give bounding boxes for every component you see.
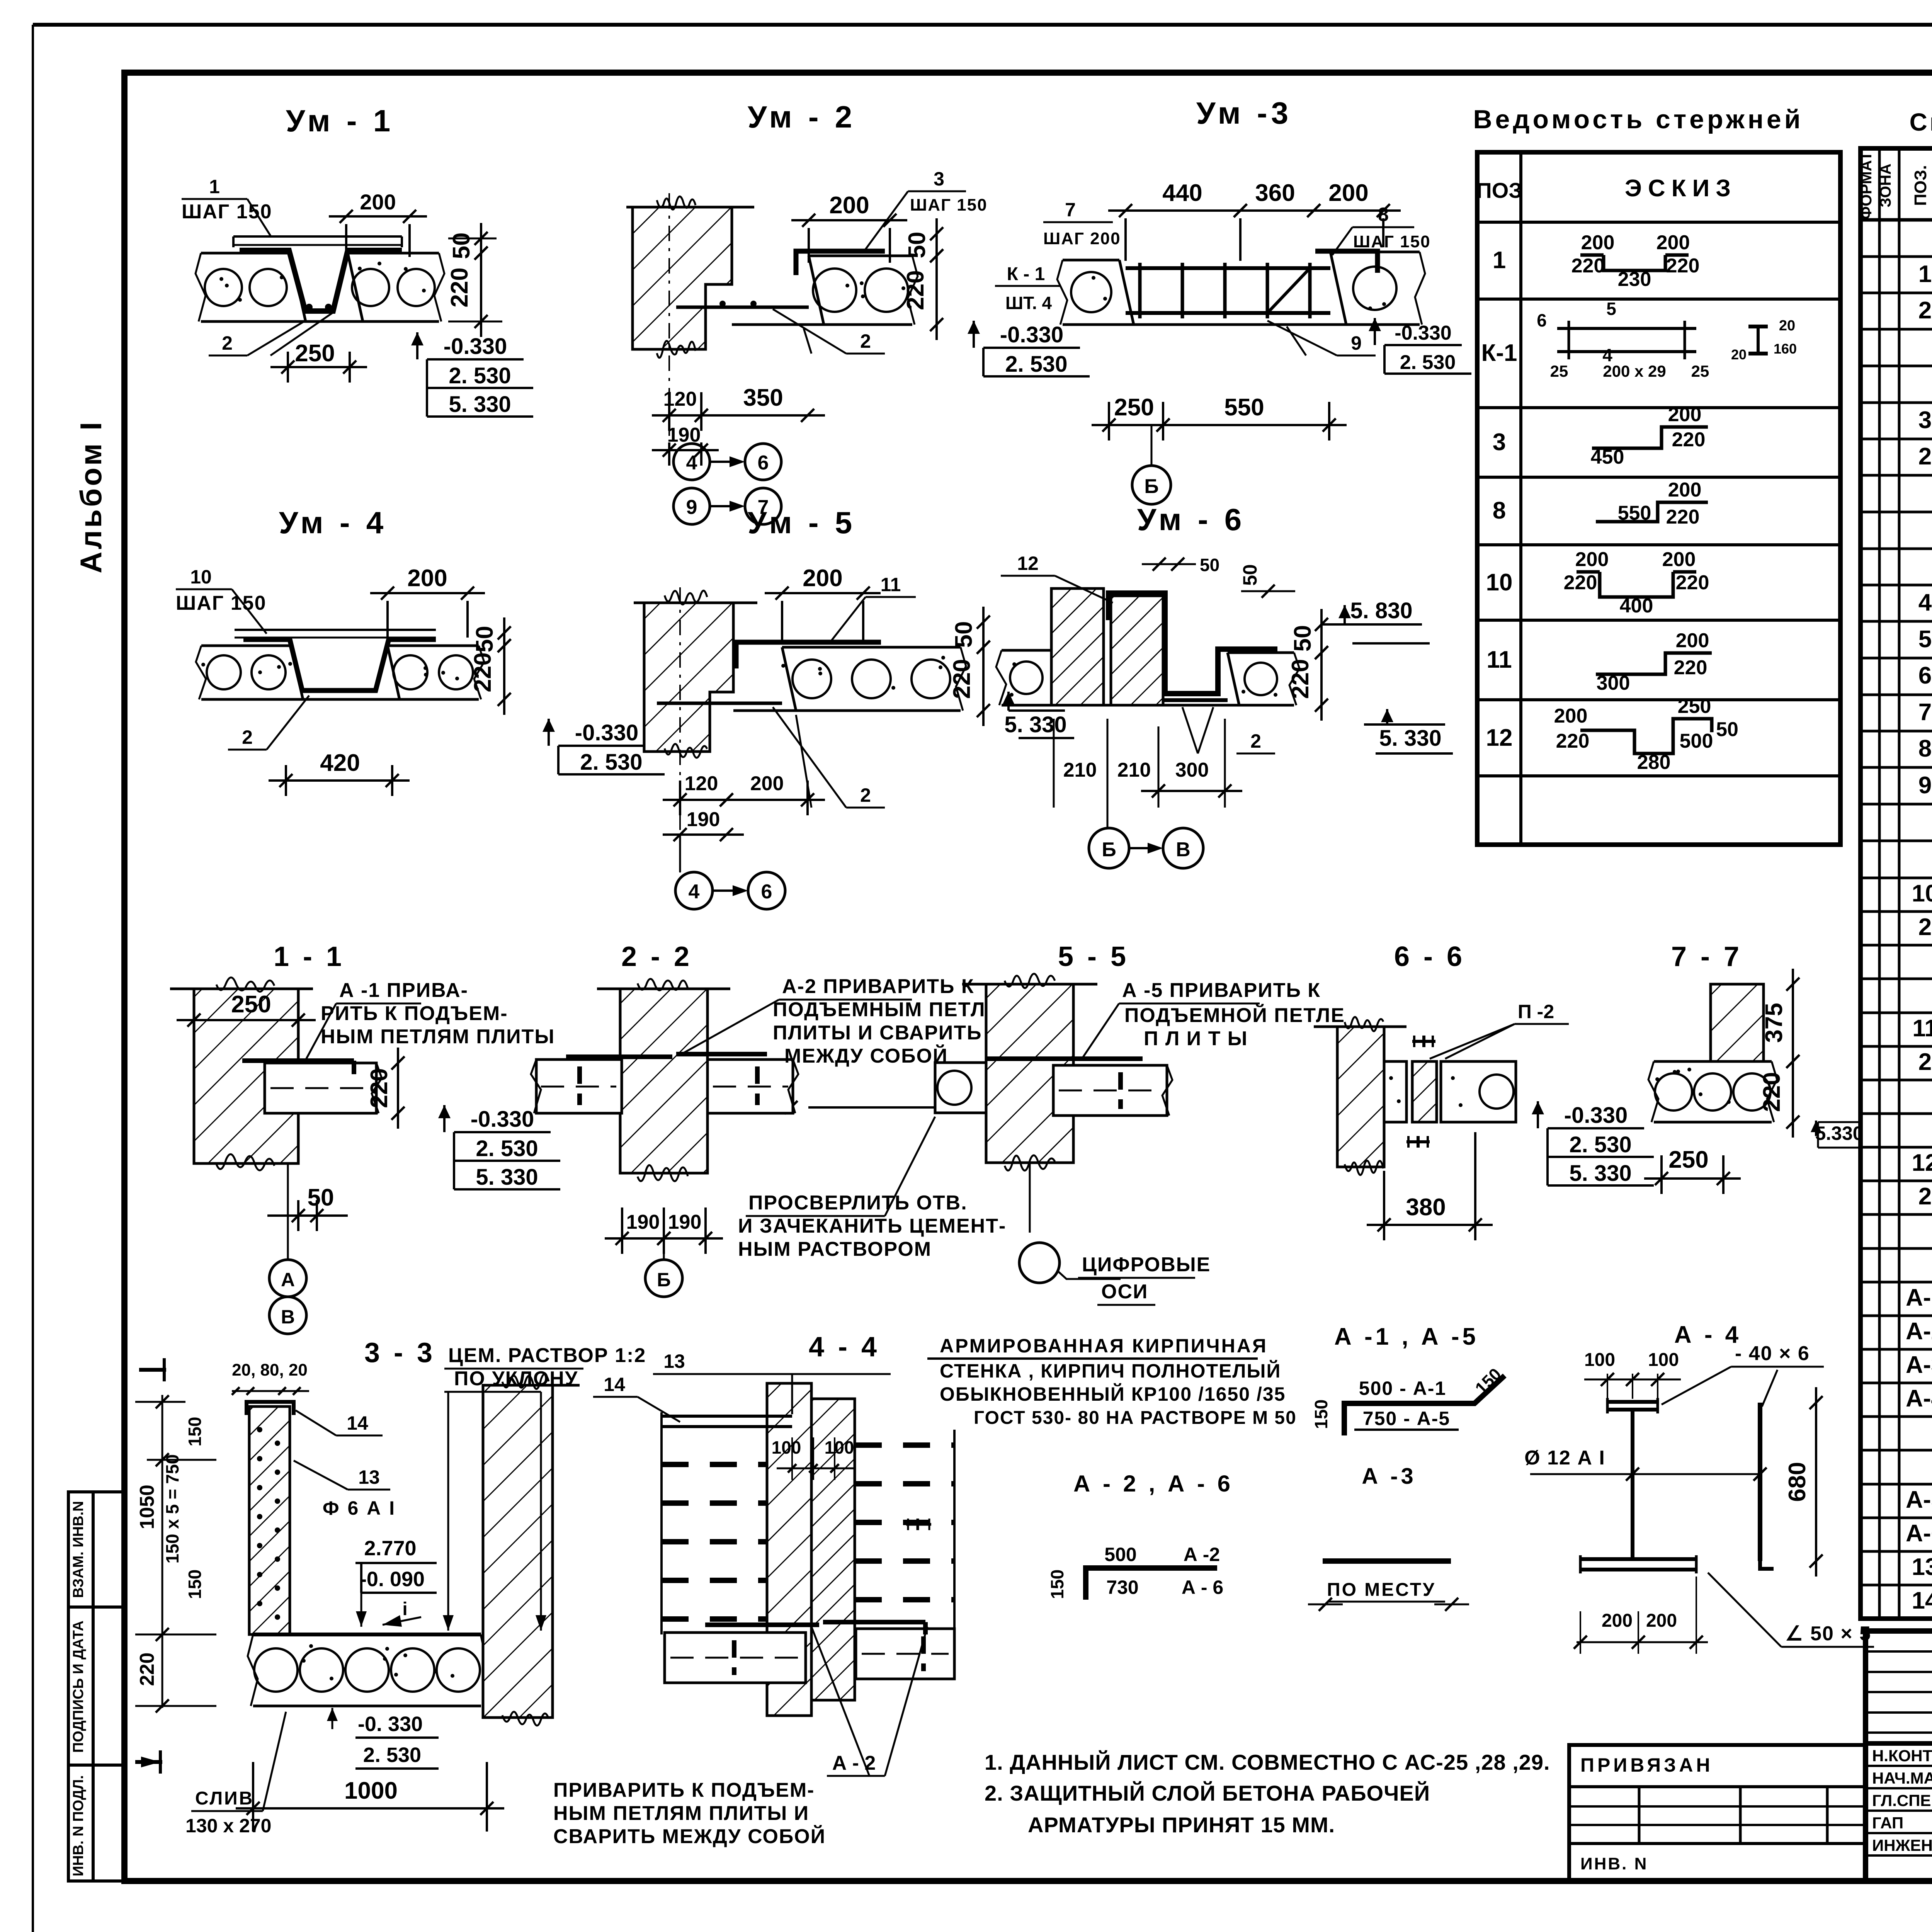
УМ-2 axis line	[668, 193, 670, 456]
svg-text:150: 150	[185, 1417, 205, 1447]
svg-text:2. 530: 2. 530	[363, 1743, 421, 1767]
svg-text:- 40 × 6: - 40 × 6	[1735, 1342, 1810, 1365]
УМ-3 rebar poz8	[1315, 251, 1378, 273]
svg-text:8: 8	[1918, 735, 1932, 762]
svg-text:190: 190	[626, 1211, 660, 1233]
svg-text:190: 190	[668, 1211, 702, 1233]
svg-text:500: 500	[1104, 1544, 1136, 1565]
svg-text:1: 1	[209, 176, 220, 197]
svg-text:420: 420	[320, 750, 360, 776]
svg-text:Ум -3: Ум -3	[1196, 96, 1292, 130]
section 2-2 left slab	[536, 1060, 622, 1113]
svg-text:ШТ. 4: ШТ. 4	[1005, 293, 1052, 313]
svg-text:200: 200	[1646, 1611, 1677, 1631]
section 5-5 axis circle	[1029, 1163, 1031, 1233]
svg-text:400: 400	[1620, 595, 1653, 617]
УМ-2 dims 120 350 190	[652, 414, 719, 417]
УМ-5 level 5.330	[1007, 692, 1010, 711]
title block upper-left small rows	[1866, 1650, 1932, 1653]
svg-text:500: 500	[1680, 730, 1713, 752]
svg-text:20: 20	[1779, 318, 1795, 334]
svg-text:200: 200	[829, 192, 869, 219]
svg-text:НЫМ РАСТВОРОМ: НЫМ РАСТВОРОМ	[738, 1238, 932, 1260]
УМ-1 bottom line	[201, 320, 439, 323]
УМ-5 wall	[644, 603, 733, 752]
svg-text:-0.330: -0.330	[1395, 322, 1451, 344]
section 6-6 channel marks	[1412, 1040, 1435, 1043]
УМ-2 level marks	[973, 321, 975, 348]
3-3 thin wall	[249, 1406, 290, 1634]
svg-text:4: 4	[1918, 589, 1932, 616]
svg-text:50: 50	[904, 232, 930, 259]
title block main horizontal line	[1866, 1741, 1932, 1746]
section 1-1 dim 250	[177, 1019, 316, 1021]
svg-text:25: 25	[1550, 362, 1568, 380]
УМ-1 dim 250	[270, 366, 367, 368]
svg-text:3: 3	[1918, 407, 1932, 434]
section 2-2 dims 190 190	[605, 1237, 681, 1240]
svg-text:50: 50	[471, 626, 498, 653]
svg-text:200: 200	[1328, 180, 1368, 206]
УМ-3 cage K-1	[1126, 266, 1330, 270]
svg-text:250: 250	[1114, 394, 1154, 421]
svg-text:150 х 5 = 750: 150 х 5 = 750	[162, 1454, 182, 1564]
svg-text:Б: Б	[1102, 838, 1116, 861]
svg-text:220: 220	[1672, 429, 1706, 451]
svg-text:10: 10	[1486, 569, 1513, 596]
УМ-6 left slab	[1002, 649, 1051, 652]
svg-text:380: 380	[1406, 1194, 1446, 1221]
УМ-4 left slab	[201, 645, 291, 647]
svg-text:100: 100	[772, 1437, 801, 1458]
svg-text:220: 220	[1666, 255, 1700, 277]
svg-text:4: 4	[686, 452, 697, 474]
svg-text:2: 2	[1918, 1049, 1932, 1075]
section 7-7 slab	[1654, 1060, 1772, 1063]
svg-text:220: 220	[1287, 659, 1314, 699]
outer page border	[33, 23, 1932, 27]
svg-text:ИНЖЕНЕР: ИНЖЕНЕР	[1872, 1836, 1932, 1854]
section 6-6 block concrete left	[1384, 1061, 1406, 1122]
svg-text:6: 6	[1537, 310, 1547, 330]
sketch row 8: step 550/200/220	[1596, 502, 1708, 522]
svg-text:РИТЬ К ПОДЪЕМ-: РИТЬ К ПОДЪЕМ-	[321, 1002, 508, 1025]
svg-text:И ЗАЧЕКАНИТЬ ЦЕМЕНТ-: И ЗАЧЕКАНИТЬ ЦЕМЕНТ-	[738, 1215, 1006, 1237]
svg-text:А: А	[281, 1269, 295, 1291]
УМ-6 rebar poz12	[1109, 593, 1277, 694]
УМ-6 right slab	[1228, 651, 1294, 654]
УМ-6 wall block 2	[1111, 596, 1163, 705]
svg-text:6 - 6: 6 - 6	[1394, 941, 1465, 972]
svg-text:6: 6	[761, 881, 772, 903]
svg-text:200: 200	[1668, 403, 1702, 426]
section 6-6 wall	[1337, 1027, 1384, 1167]
svg-text:ЭСКИЗ: ЭСКИЗ	[1625, 175, 1737, 202]
УМ-6 dim 50 top	[1153, 558, 1166, 571]
svg-text:5. 830: 5. 830	[1350, 598, 1412, 623]
svg-text:2: 2	[1918, 443, 1932, 470]
svg-text:ПОДПИСЬ И ДАТА: ПОДПИСЬ И ДАТА	[70, 1621, 87, 1753]
svg-text:220: 220	[1556, 730, 1590, 752]
svg-text:220: 220	[366, 1068, 393, 1108]
section 5-5 left slab	[935, 1063, 986, 1113]
svg-text:220: 220	[136, 1653, 158, 1686]
svg-text:ПО МЕСТУ: ПО МЕСТУ	[1327, 1580, 1436, 1600]
svg-text:220: 220	[446, 267, 473, 307]
svg-text:450: 450	[1591, 446, 1624, 468]
svg-text:230: 230	[1618, 268, 1651, 291]
УМ-6 level 5.330 right	[1386, 709, 1388, 724]
svg-text:СВАРИТЬ МЕЖДУ СОБОЙ: СВАРИТЬ МЕЖДУ СОБОЙ	[553, 1825, 826, 1848]
svg-text:2: 2	[1918, 1183, 1932, 1210]
УМ-3 left slab	[1063, 259, 1119, 262]
svg-text:9: 9	[686, 496, 697, 519]
svg-text:20, 80, 20: 20, 80, 20	[232, 1361, 308, 1379]
svg-text:А -3: А -3	[1362, 1464, 1417, 1489]
svg-text:-0.330: -0.330	[444, 334, 507, 359]
svg-text:5. 330: 5. 330	[1569, 1161, 1631, 1186]
svg-text:150: 150	[1311, 1400, 1331, 1429]
УМ-5 slab	[782, 646, 961, 649]
svg-text:360: 360	[1255, 180, 1295, 206]
УМ-4 level marks	[548, 719, 550, 746]
svg-text:А-6: А-6	[1906, 1520, 1932, 1547]
svg-text:ПОЗ.: ПОЗ.	[1911, 165, 1930, 206]
privyazan box	[1569, 1745, 1866, 1881]
svg-text:1000: 1000	[344, 1777, 398, 1804]
УМ-1 right slab	[348, 252, 439, 255]
svg-text:1: 1	[1493, 247, 1506, 274]
УМ-5 rebar poz11	[736, 642, 881, 668]
svg-text:150: 150	[1047, 1570, 1067, 1599]
svg-text:А -1 , А -5: А -1 , А -5	[1334, 1323, 1479, 1350]
A-4 web	[1631, 1410, 1634, 1559]
svg-text:ПОДЪЕМНЫМ ПЕТЛЯМ: ПОДЪЕМНЫМ ПЕТЛЯМ	[773, 998, 1018, 1021]
A-1 A-5 anchor bar drawing	[1344, 1376, 1505, 1435]
svg-text:2: 2	[860, 330, 871, 352]
svg-text:11: 11	[1486, 646, 1512, 673]
svg-text:ПРИВАРИТЬ К ПОДЪЕМ-: ПРИВАРИТЬ К ПОДЪЕМ-	[553, 1779, 815, 1801]
svg-text:440: 440	[1162, 180, 1202, 206]
svg-text:ПОЗ: ПОЗ	[1476, 178, 1522, 202]
svg-text:9: 9	[1918, 772, 1932, 799]
УМ-4 dim 200	[370, 592, 485, 594]
svg-text:А-2: А-2	[1906, 1318, 1932, 1345]
svg-text:160: 160	[1774, 341, 1797, 357]
svg-text:5. 330: 5. 330	[476, 1165, 538, 1190]
УМ-5 axis line	[679, 587, 681, 873]
svg-text:А-1: А-1	[1906, 1284, 1932, 1311]
svg-text:1. ДАННЫЙ ЛИСТ СМ. СОВМЕСТНО С: 1. ДАННЫЙ ЛИСТ СМ. СОВМЕСТНО С АС-25 ,28…	[985, 1750, 1550, 1774]
section 2-2 axis circle Б	[663, 1252, 665, 1260]
svg-text:Ум - 4: Ум - 4	[279, 505, 388, 540]
УМ-1 left slab	[201, 252, 291, 255]
svg-text:ПЛИТЫ И СВАРИТЬ: ПЛИТЫ И СВАРИТЬ	[773, 1022, 982, 1044]
svg-text:375: 375	[1761, 1003, 1787, 1043]
svg-text:5. 330: 5. 330	[449, 392, 511, 417]
svg-text:Альбом I: Альбом I	[74, 420, 108, 573]
svg-text:200: 200	[750, 772, 784, 795]
svg-text:ФОРМАТ: ФОРМАТ	[1858, 151, 1875, 219]
svg-text:2: 2	[1918, 914, 1932, 940]
svg-text:НЫМ ПЕТЛЯМ ПЛИТЫ: НЫМ ПЕТЛЯМ ПЛИТЫ	[321, 1026, 555, 1048]
svg-text:К - 1: К - 1	[1007, 264, 1045, 284]
svg-text:12: 12	[1017, 553, 1039, 574]
section 2-2 wall	[620, 989, 707, 1173]
УМ-4 top plate	[235, 629, 436, 631]
svg-text:А - 4: А - 4	[1674, 1321, 1742, 1348]
svg-text:12: 12	[1912, 1150, 1932, 1176]
3-3 cut mark top-left	[139, 1368, 166, 1372]
section 1-1 anchor A-1	[242, 1058, 354, 1063]
svg-text:280: 280	[1637, 751, 1671, 774]
svg-text:7 - 7: 7 - 7	[1671, 941, 1742, 972]
УМ-2 anchor bar	[676, 306, 809, 309]
svg-text:680: 680	[1784, 1462, 1811, 1502]
svg-text:-0. 330: -0. 330	[358, 1713, 423, 1736]
4-4 rebar dashes	[662, 1462, 767, 1467]
svg-text:200: 200	[1581, 231, 1615, 254]
svg-text:2. 530: 2. 530	[1400, 351, 1456, 374]
svg-text:ГЛ.СПЕЦ: ГЛ.СПЕЦ	[1872, 1791, 1932, 1810]
svg-text:ПО УКЛОНУ: ПО УКЛОНУ	[454, 1367, 578, 1390]
svg-text:Ф 6 А I: Ф 6 А I	[323, 1497, 396, 1519]
svg-text:3: 3	[1493, 429, 1506, 456]
УМ-2 wall	[633, 207, 732, 349]
svg-text:200: 200	[803, 565, 842, 592]
svg-text:200: 200	[1676, 629, 1709, 652]
УМ-2 axis circles 4 6 9 7	[673, 444, 710, 480]
svg-text:Б: Б	[1144, 475, 1158, 498]
section 1-1 wall	[194, 989, 298, 1163]
section 1-1 level marks	[443, 1105, 446, 1132]
УМ-3 axis circle Б	[1132, 466, 1171, 504]
svg-text:Спецификация материалов: Спецификация материалов на УМ1 ÷ УМ6 и а…	[1910, 108, 1932, 136]
svg-text:А - 2 , А - 6: А - 2 , А - 6	[1073, 1471, 1233, 1497]
svg-text:6: 6	[758, 452, 769, 474]
svg-text:2: 2	[242, 726, 253, 748]
svg-text:250: 250	[231, 991, 271, 1018]
section 5-5 right slab	[1053, 1065, 1167, 1116]
svg-text:150: 150	[185, 1570, 205, 1599]
svg-text:220: 220	[1676, 571, 1709, 594]
svg-text:i: i	[402, 1599, 407, 1619]
4-4 left slab	[665, 1633, 806, 1683]
svg-text:А-5: А-5	[1906, 1486, 1932, 1513]
УМ-6 bottom line	[1002, 704, 1294, 707]
svg-text:А - 2: А - 2	[832, 1752, 876, 1774]
svg-text:120: 120	[685, 772, 718, 795]
svg-text:200: 200	[1662, 548, 1696, 571]
svg-text:50: 50	[1716, 718, 1738, 741]
svg-text:550: 550	[1224, 394, 1264, 421]
svg-text:120: 120	[663, 388, 697, 410]
svg-text:Ум - 5: Ум - 5	[748, 505, 856, 540]
svg-text:13: 13	[358, 1466, 380, 1488]
svg-text:300: 300	[1175, 759, 1209, 781]
УМ-1 dims 50 220	[448, 238, 497, 240]
УМ-6 dims 210 210 300	[808, 1106, 1036, 1109]
svg-text:13: 13	[663, 1350, 685, 1372]
svg-text:2: 2	[1250, 730, 1261, 752]
svg-text:2.770: 2.770	[364, 1537, 416, 1560]
svg-text:-0.330: -0.330	[1000, 322, 1063, 347]
svg-text:20: 20	[1731, 347, 1747, 362]
svg-text:220: 220	[1666, 506, 1700, 528]
section 7-7 dim 250	[1644, 1177, 1741, 1180]
svg-text:5. 330: 5. 330	[1004, 712, 1066, 737]
svg-text:200: 200	[407, 565, 447, 592]
svg-text:6: 6	[1918, 662, 1932, 689]
svg-text:11: 11	[881, 574, 901, 595]
section 6-6 block brick middle	[1412, 1061, 1437, 1122]
3-3 channel C14 cap	[247, 1402, 294, 1415]
УМ-4 bottom line	[201, 698, 479, 701]
svg-text:25: 25	[1691, 362, 1709, 380]
svg-text:-0.330: -0.330	[575, 720, 638, 745]
svg-text:2. ЗАЩИТНЫЙ СЛОЙ БЕТОНА Р: 2. ЗАЩИТНЫЙ СЛОЙ БЕТОНА РАБОЧЕЙ	[985, 1781, 1430, 1805]
svg-text:ОСИ: ОСИ	[1101, 1281, 1148, 1303]
sketch row 10: U 400/200/220	[1600, 572, 1673, 597]
svg-text:ОБЫКНОВЕННЫЙ КР100 /1650 /35: ОБЫКНОВЕННЫЙ КР100 /1650 /35	[940, 1383, 1286, 1405]
svg-text:50: 50	[308, 1184, 334, 1211]
4-4 brick symbol	[906, 1523, 931, 1526]
svg-text:К-1: К-1	[1481, 340, 1517, 366]
section 1-1 dim 220	[397, 1048, 399, 1129]
svg-text:А -1 ПРИВА-: А -1 ПРИВА-	[339, 979, 468, 1002]
УМ-3 bottom line	[1063, 323, 1420, 326]
УМ-4 dims 50 220	[503, 617, 505, 661]
3-3 left dim chain	[162, 1395, 163, 1708]
section 5-5 anchor A-5	[986, 1056, 1143, 1061]
svg-text:-0. 090: -0. 090	[360, 1568, 425, 1591]
svg-text:200: 200	[1602, 1611, 1633, 1631]
svg-text:Н.КОНТР.: Н.КОНТР.	[1872, 1747, 1932, 1765]
svg-text:А -2: А -2	[1184, 1544, 1220, 1565]
svg-text:550: 550	[1618, 502, 1651, 524]
svg-text:АРМАТУРЫ ПРИНЯТ 15 ММ.: АРМАТУРЫ ПРИНЯТ 15 ММ.	[1028, 1813, 1335, 1837]
left margin stamp boxes	[68, 1492, 124, 1881]
svg-text:В: В	[1176, 838, 1190, 861]
УМ-3 right slab	[1330, 251, 1420, 253]
svg-text:7: 7	[1065, 199, 1076, 221]
3-3 tall wall	[483, 1385, 553, 1718]
svg-text:730: 730	[1106, 1577, 1138, 1598]
A-4 bottom flange	[1580, 1557, 1696, 1561]
svg-text:ПОДЪЕМНОЙ ПЕТЛЕ: ПОДЪЕМНОЙ ПЕТЛЕ	[1124, 1004, 1345, 1027]
sketch row 3: step 450/200/220	[1592, 427, 1708, 448]
УМ-3 dims 250 550	[1092, 424, 1180, 426]
УМ-1 level marks	[416, 332, 418, 359]
svg-text:1 - 1: 1 - 1	[274, 941, 345, 972]
section 7-7 level 5.330	[1815, 1121, 1817, 1136]
4-4 vertical edges	[660, 1412, 663, 1634]
svg-text:ШАГ 200: ШАГ 200	[1043, 229, 1121, 248]
svg-text:СТЕНКА , КИРПИЧ ПОЛНОТЕЛЫЙ: СТЕНКА , КИРПИЧ ПОЛНОТЕЛЫЙ	[940, 1360, 1281, 1382]
svg-text:10: 10	[1912, 880, 1932, 907]
УМ-6 trough floor	[1163, 698, 1228, 702]
svg-text:250: 250	[1668, 1146, 1708, 1173]
svg-text:11: 11	[1912, 1015, 1932, 1042]
svg-text:350: 350	[743, 384, 783, 411]
svg-text:5: 5	[1606, 299, 1616, 319]
svg-text:200 x 29: 200 x 29	[1603, 362, 1666, 380]
УМ-5 anchor bar	[657, 702, 782, 705]
svg-text:2. 530: 2. 530	[476, 1136, 538, 1161]
svg-text:100: 100	[1648, 1350, 1679, 1370]
УМ-6 axis circles Б В	[1089, 828, 1129, 868]
section 6-6 dim 380	[1367, 1224, 1493, 1226]
svg-text:ШАГ 150: ШАГ 150	[176, 592, 267, 614]
svg-text:500 - А-1: 500 - А-1	[1359, 1378, 1446, 1399]
svg-text:12: 12	[1486, 724, 1513, 751]
svg-text:220: 220	[1674, 656, 1708, 679]
svg-text:220: 220	[1759, 1072, 1785, 1112]
svg-text:Ум - 2: Ум - 2	[748, 100, 856, 134]
УМ-1 rebar poz1	[240, 250, 402, 311]
A-4 dim 680	[1815, 1387, 1817, 1577]
svg-text:ЦЕМ. РАСТВОР 1:2: ЦЕМ. РАСТВОР 1:2	[448, 1344, 646, 1367]
svg-text:А -5 ПРИВАРИТЬ К: А -5 ПРИВАРИТЬ К	[1122, 979, 1321, 1002]
svg-text:1: 1	[1918, 261, 1932, 287]
section 2-2 right slab	[707, 1060, 793, 1113]
svg-text:ИНВ. N ПОДЛ.: ИНВ. N ПОДЛ.	[70, 1775, 87, 1876]
svg-text:ШАГ 150: ШАГ 150	[1353, 232, 1431, 251]
svg-text:220: 220	[1571, 255, 1605, 277]
svg-text:5: 5	[1918, 626, 1932, 653]
УМ-4 right slab	[388, 645, 479, 647]
svg-text:-0.330: -0.330	[1564, 1103, 1628, 1128]
svg-text:50: 50	[1200, 555, 1219, 575]
section 2-2 anchor A-2	[566, 1054, 672, 1059]
svg-text:2. 530: 2. 530	[580, 750, 642, 775]
svg-text:В: В	[281, 1306, 295, 1328]
svg-text:200: 200	[1668, 479, 1702, 501]
УМ-2 dims 50 220	[935, 218, 938, 271]
svg-text:Ø 12 А I: Ø 12 А I	[1524, 1447, 1605, 1469]
svg-text:-0.330: -0.330	[471, 1107, 534, 1132]
УМ-1 dim 200	[329, 215, 427, 218]
УМ-5 dim 200	[765, 592, 881, 594]
svg-text:∠ 50 × 5: ∠ 50 × 5	[1785, 1622, 1871, 1645]
svg-text:220: 220	[1564, 571, 1597, 594]
svg-text:А - 6: А - 6	[1182, 1577, 1223, 1598]
УМ-6 wall block 1	[1051, 588, 1104, 705]
svg-text:250: 250	[295, 340, 335, 367]
svg-text:9: 9	[1351, 332, 1362, 354]
svg-text:ИНВ. N: ИНВ. N	[1580, 1854, 1648, 1873]
svg-text:П -2: П -2	[1518, 1001, 1554, 1022]
svg-text:Ум - 1: Ум - 1	[286, 104, 395, 138]
svg-text:ШАГ 150: ШАГ 150	[910, 196, 988, 214]
УМ-3 dims 440 360 200	[1108, 209, 1258, 212]
svg-text:НАЧ.МАСТ: НАЧ.МАСТ	[1872, 1769, 1932, 1787]
A-2 A-6 drawing	[1086, 1568, 1217, 1600]
svg-text:14: 14	[347, 1412, 368, 1434]
svg-text:100: 100	[825, 1437, 854, 1458]
svg-text:ПРОСВЕРЛИТЬ ОТВ.: ПРОСВЕРЛИТЬ ОТВ.	[748, 1192, 968, 1214]
УМ-6 level 5.830	[1344, 605, 1346, 624]
svg-text:750 - А-5: 750 - А-5	[1363, 1408, 1450, 1429]
3-3 bottom cut mark	[135, 1760, 162, 1764]
svg-text:2. 530: 2. 530	[1005, 352, 1067, 377]
svg-text:220: 220	[469, 652, 496, 692]
svg-text:220: 220	[902, 270, 929, 310]
svg-text:2 - 2: 2 - 2	[621, 941, 692, 972]
svg-text:2: 2	[222, 332, 233, 354]
svg-text:3: 3	[934, 168, 944, 190]
УМ-4 dim 420	[269, 779, 410, 782]
